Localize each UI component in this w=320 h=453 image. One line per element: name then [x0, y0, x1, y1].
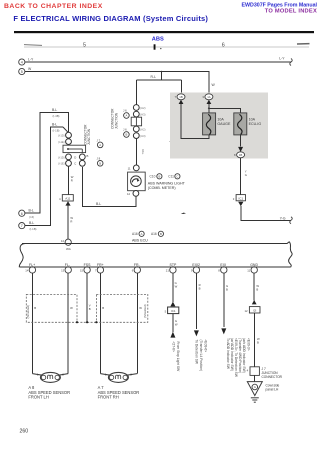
inline connector IC1 [236, 195, 245, 201]
junction connector (left chain) terminals top [66, 132, 72, 138]
pointer arrow mark 2 [181, 213, 186, 214]
wire W2 W [25, 72, 209, 94]
svg-text:To ADD Indicator SW: To ADD Indicator SW [226, 338, 230, 370]
svg-text:F ELECTRICAL WIRING DIAGRAM (S: F ELECTRICAL WIRING DIAGRAM (System Circ… [13, 14, 208, 23]
svg-text:(w/ ADD Indicator SW): (w/ ADD Indicator SW) [230, 338, 234, 371]
svg-text:J 6: J 6 [123, 128, 127, 132]
svg-text:C: C [176, 175, 178, 179]
ground point triangle [247, 382, 262, 396]
svg-text:(I-1D): (I-1D) [58, 155, 65, 159]
svg-text:(Transfer 4WD Position): (Transfer 4WD Position) [238, 338, 242, 373]
svg-text:B-L: B-L [29, 221, 34, 225]
wire FSS shield [86, 273, 88, 322]
svg-text:<E09-3>, To Detection SW: <E09-3>, To Detection SW [234, 338, 238, 378]
svg-text:4: 4 [21, 61, 23, 65]
fuse 10A GAUGE [203, 113, 216, 135]
svg-text:W: W [139, 306, 142, 310]
wire B-L from warning light to J/C [82, 167, 136, 207]
svg-text:G: G [254, 385, 256, 389]
svg-text:(I-4B): (I-4B) [53, 114, 60, 118]
connector circle A (page edge) [19, 59, 25, 65]
svg-text:(I-1B): (I-1B) [30, 227, 37, 231]
svg-text:13: 13 [61, 268, 65, 272]
svg-text:BACK TO CHAPTER INDEX: BACK TO CHAPTER INDEX [4, 3, 103, 10]
wire continue to ECU [67, 205, 69, 239]
ECU terminal row [29, 267, 257, 273]
svg-text:ABS ECU: ABS ECU [132, 238, 148, 242]
wire fuse ECU-IG down to oval 1B lower [239, 135, 241, 146]
svg-text:12: 12 [244, 309, 248, 313]
svg-text:ABS: ABS [152, 37, 164, 43]
svg-text:GAUGE: GAUGE [217, 122, 231, 126]
svg-text:C10: C10 [150, 175, 156, 179]
ECU box left break [19, 244, 25, 268]
svg-text:IC1: IC1 [171, 309, 176, 313]
svg-text:(I-1B): (I-1B) [53, 129, 60, 133]
svg-text:To Detection SW: To Detection SW [194, 340, 198, 365]
svg-text:B: B [99, 162, 101, 166]
svg-text:260: 260 [20, 428, 29, 434]
svg-text:A: A [99, 143, 101, 147]
svg-text:ABS WARNING LIGHT: ABS WARNING LIGHT [148, 182, 186, 186]
junction connector J6 busbar box [131, 117, 141, 126]
inline connector A11 [62, 195, 73, 201]
svg-text:(I-1E): (I-1E) [58, 162, 65, 166]
svg-text:1A: 1A [207, 95, 211, 99]
svg-text:WA: WA [66, 247, 71, 251]
junction connector J7 [250, 367, 259, 376]
pointer arrow mark 1 [169, 140, 175, 142]
svg-text:A: A [125, 114, 127, 118]
wire EXI to indicator switch [223, 273, 225, 327]
svg-text:1B: 1B [239, 153, 243, 157]
svg-text:J 6: J 6 [123, 109, 127, 113]
svg-text:5: 5 [83, 42, 86, 48]
wire W-R from J/C down to ECU WA [68, 166, 70, 194]
shield junction dots [76, 321, 78, 323]
svg-text:(Shielded): (Shielded) [26, 305, 30, 319]
fuse 10A ECU-IG [234, 113, 247, 135]
relay block connector oval lower 1B [237, 152, 245, 158]
svg-text:G: G [245, 173, 247, 177]
wire B-L from connector D up to J/C [25, 127, 63, 226]
junction connector J6 terminal circles bottom [133, 126, 139, 132]
svg-text:A16: A16 [132, 232, 138, 236]
svg-text:I2I: I2I [253, 309, 257, 313]
svg-text:15: 15 [80, 268, 84, 272]
svg-text:A16: A16 [151, 232, 157, 236]
svg-text:FL-: FL- [65, 263, 71, 267]
ECU top terminal WA [65, 239, 71, 245]
svg-text:EXI: EXI [220, 263, 226, 267]
svg-text:B: B [257, 340, 259, 344]
wire EXI2 to detection switch [195, 273, 197, 329]
connector arrow IC1 [238, 202, 243, 206]
svg-text:(I-I2): (I-I2) [140, 106, 146, 110]
wire W1 L-Y [25, 61, 291, 63]
wire R-L chain to warning light [135, 139, 137, 165]
svg-text:W: W [175, 322, 178, 326]
svg-text:FRONT LH: FRONT LH [28, 395, 48, 400]
svg-text:(w/o ADD Indicator SW): (w/o ADD Indicator SW) [242, 338, 246, 373]
svg-text:L-Y: L-Y [28, 57, 34, 61]
svg-text:B-L: B-L [52, 122, 57, 126]
wire J7 to ground point [254, 375, 256, 381]
svg-text:B: B [102, 306, 104, 310]
svg-text:(I-1D): (I-1D) [58, 134, 65, 138]
svg-text:<27-6>: <27-6> [171, 342, 175, 353]
svg-text:21: 21 [166, 268, 170, 272]
left page-edge connector C [19, 210, 25, 216]
connector arrow below 1B [179, 100, 184, 104]
ABS speed sensor front RH [108, 372, 128, 382]
svg-text:FR+: FR+ [97, 263, 104, 267]
svg-text:C: C [74, 162, 76, 166]
svg-text:EXI2: EXI2 [192, 263, 200, 267]
svg-text:B: B [125, 133, 127, 137]
relay block connector oval 1A [205, 94, 213, 100]
svg-text:(COMB. METER): (COMB. METER) [148, 186, 176, 190]
svg-text:B: B [160, 232, 162, 236]
node junction on W2 [161, 71, 163, 73]
svg-text:(I-I3): (I-I3) [140, 134, 146, 138]
terminal name labels [29, 263, 258, 267]
wire W1 page break squiggle [290, 59, 293, 66]
connector arrow A11 [65, 201, 70, 205]
svg-text:JUNCTION: JUNCTION [115, 112, 119, 129]
svg-text:W: W [70, 306, 73, 310]
connector arrow above lower 1B [238, 147, 243, 152]
wire Y-G page break squiggle [290, 217, 293, 224]
relay block shaded area [170, 93, 268, 159]
left page-edge connector D [19, 223, 25, 229]
terminal pin numbers [25, 268, 250, 272]
sensor wire colour labels [34, 304, 142, 312]
svg-text:6: 6 [222, 42, 225, 48]
svg-text:(I-6): (I-6) [29, 215, 34, 219]
ABS warning light (comb. meter) [128, 172, 146, 191]
svg-text:panel LH: panel LH [266, 388, 279, 392]
column scale line [24, 46, 309, 48]
svg-text:10A: 10A [217, 118, 224, 122]
wire oval1A to fuses [208, 104, 210, 113]
svg-text:L-Y: L-Y [279, 57, 285, 61]
junction connector J6 terminal circles top [133, 105, 139, 111]
svg-text:(Shielded): (Shielded) [143, 304, 147, 318]
svg-text:C11: C11 [168, 175, 174, 179]
svg-text:JUNCTION: JUNCTION [87, 128, 91, 145]
svg-text:FR-: FR- [134, 263, 141, 267]
svg-text:D: D [74, 155, 76, 159]
svg-text:11: 11 [128, 166, 131, 170]
svg-text:B: B [199, 286, 201, 290]
svg-text:B-L: B-L [96, 202, 101, 206]
svg-text:14: 14 [25, 268, 29, 272]
header rule [14, 31, 314, 33]
svg-text:B: B [158, 175, 160, 179]
svg-text:CONNECTOR: CONNECTOR [262, 375, 283, 379]
wire branch R-L to junction connector chain [137, 72, 182, 105]
wire GND [253, 273, 255, 300]
junction connector (left chain) busbar box [63, 145, 86, 152]
wire FR+ [99, 273, 101, 374]
svg-text:10A: 10A [249, 118, 256, 122]
svg-text:5: 5 [21, 70, 23, 74]
svg-text:J 8: J 8 [97, 157, 101, 161]
svg-text:<E09-3>: <E09-3> [246, 338, 250, 351]
svg-text:Y-G: Y-G [280, 216, 286, 220]
svg-text:1B: 1B [179, 95, 183, 99]
svg-text:B: B [87, 154, 89, 158]
shield link dashed [77, 321, 96, 323]
svg-text:B: B [226, 287, 228, 291]
svg-text:FSS: FSS [84, 263, 91, 267]
svg-text:14: 14 [61, 239, 65, 243]
svg-text:(I-I2): (I-I2) [140, 128, 146, 132]
svg-text:R-L: R-L [141, 150, 145, 155]
svg-text:TO MODEL INDEX: TO MODEL INDEX [265, 8, 317, 14]
svg-text:GND: GND [250, 263, 258, 267]
svg-text:7: 7 [21, 224, 23, 228]
svg-text:12: 12 [127, 192, 131, 196]
ABS speed sensor front LH [40, 372, 60, 382]
svg-text:(I-1E): (I-1E) [58, 140, 65, 144]
shielded cable box RH [96, 294, 147, 322]
svg-text:11: 11 [247, 268, 250, 272]
svg-text:(Transfer L4 Position): (Transfer L4 Position) [199, 340, 203, 372]
svg-text:R: R [71, 178, 73, 182]
svg-text:(I-I3): (I-I3) [140, 113, 146, 117]
wire FL+ [31, 273, 33, 374]
connector arrow below 1A [207, 100, 212, 104]
connector circle above warning light [133, 165, 139, 171]
svg-text:FRONT RH: FRONT RH [98, 395, 119, 400]
center tick [154, 44, 156, 49]
svg-text:R-L: R-L [151, 75, 157, 79]
relay block connector oval 1B [177, 94, 185, 100]
svg-text:B: B [34, 306, 36, 310]
wire B-L from connector C up to J/C [25, 112, 69, 213]
svg-text:R: R [70, 219, 72, 223]
svg-text:B-L: B-L [29, 209, 34, 213]
svg-text:A11: A11 [65, 197, 70, 201]
svg-text:STP: STP [170, 263, 177, 267]
svg-text:<E09-6>: <E09-6> [203, 340, 207, 353]
wire oval1B to fuse GAUGE bottom [181, 104, 209, 139]
svg-text:6: 6 [21, 212, 23, 216]
connector circle B (page edge) [19, 68, 25, 74]
svg-text:B: B [256, 287, 258, 291]
wire Y-G to page edge [241, 206, 291, 220]
svg-text:IC1: IC1 [238, 196, 243, 200]
junction connector (left chain) terminals bottom [66, 154, 72, 160]
svg-text:CONNECTOR: CONNECTOR [83, 124, 87, 145]
ground symbol [251, 397, 259, 399]
ECU box right break [287, 242, 292, 267]
svg-text:ECU-IG: ECU-IG [249, 122, 262, 126]
connector circle below warning light [133, 191, 139, 197]
wire FL- [67, 273, 69, 374]
wire FR- [136, 273, 138, 374]
svg-text:From Stop Light SW: From Stop Light SW [176, 342, 180, 373]
svg-text:FL+: FL+ [29, 263, 35, 267]
ABS ECU box top edge [22, 243, 288, 245]
svg-text:A: A [141, 232, 143, 236]
wire Y-G down from 1B [240, 158, 242, 195]
svg-text:B: B [89, 307, 91, 311]
svg-text:CONNECTOR: CONNECTOR [111, 108, 115, 129]
svg-text:B-L: B-L [52, 108, 57, 112]
svg-text:W: W [175, 284, 178, 288]
shielded cable box LH [26, 294, 77, 322]
